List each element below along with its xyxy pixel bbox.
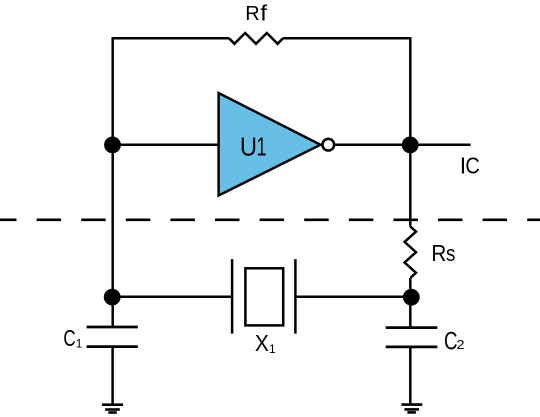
svg-text:1: 1 [269,342,276,356]
svg-text:f: f [260,0,267,25]
svg-text:U: U [240,134,257,162]
svg-text:R: R [431,240,446,266]
svg-text:2: 2 [457,338,465,352]
svg-text:C: C [465,152,479,179]
svg-text:1: 1 [76,338,82,350]
svg-text:C: C [63,327,75,352]
svg-text:s: s [446,243,455,267]
svg-text:1: 1 [256,132,266,161]
svg-text:R: R [245,3,259,25]
svg-text:X: X [255,330,269,356]
